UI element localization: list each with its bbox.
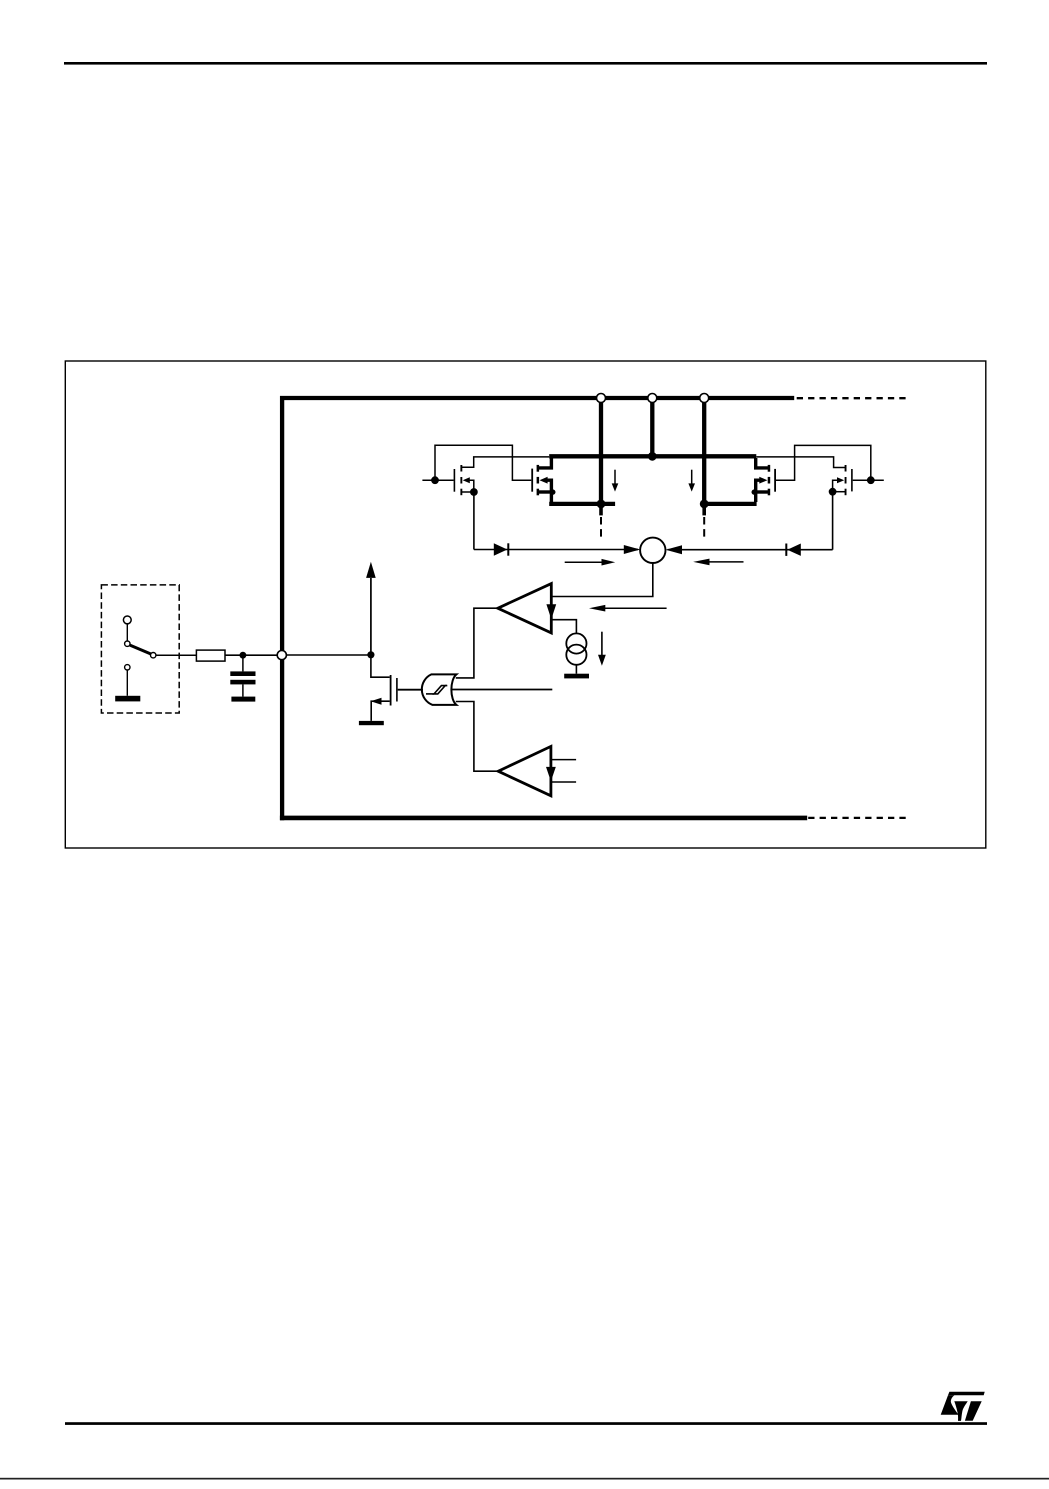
junction capacitor node: [240, 652, 247, 659]
comparator U1: [498, 584, 552, 633]
arrowhead into node from left: [624, 545, 641, 554]
transistor Q3 drain limb: [756, 458, 770, 468]
device boundary (thick left edge + top supply bus): [282, 398, 794, 820]
schmitt OR gate U3: [422, 674, 457, 705]
junction source right: [700, 500, 709, 509]
comparator U2: [498, 746, 551, 795]
wire U1 to current source: [551, 620, 576, 634]
wire switch top: [126, 624, 128, 641]
transistor Q2 body-source limb: [547, 480, 551, 502]
wire drain bus drop 3: [702, 400, 706, 504]
transistor M1 source arrow: [371, 698, 382, 705]
transistor Q2 body arrow: [540, 477, 548, 484]
wire input inside: [286, 654, 371, 656]
transistor Q2 gate bar: [531, 469, 533, 492]
wire U2 input stub upper: [551, 759, 576, 761]
transistor Q1 body tie: [470, 480, 474, 491]
page bottom edge line: [0, 1478, 1049, 1480]
junction gate node left: [431, 476, 439, 484]
wire gate stub left: [422, 479, 453, 481]
transistor Q3 source stub: [756, 490, 769, 493]
transistor M1 drain wire: [371, 653, 390, 677]
transistor Q4 source stub: [833, 491, 845, 493]
ground I1: [564, 674, 589, 679]
pin circle input: [277, 651, 286, 660]
wire U2 input stub lower: [551, 781, 576, 783]
wire switch bottom to ground: [126, 670, 128, 696]
wire mid drain bus: [549, 454, 756, 458]
pin circle drain 3: [700, 394, 709, 403]
transistor Q2 source stub: [538, 490, 551, 493]
dashed source continuation left: [600, 517, 602, 538]
bottom bus dashed continuation: [808, 817, 910, 819]
transistor Q4 gate bar: [851, 469, 853, 491]
pin circle drain 1: [597, 394, 606, 403]
transistor M1 channel bar: [390, 675, 392, 706]
junction mid bus: [648, 452, 657, 461]
wire U1 output to gate input: [456, 608, 498, 678]
wire capacitor bottom: [242, 684, 244, 696]
comparator U1 internal arrow: [546, 598, 556, 620]
wire U2 output to gate input: [456, 702, 498, 772]
capacitor C1: [230, 671, 255, 684]
transistor Q1 body arrow: [463, 477, 470, 483]
wire sense right vertical: [832, 492, 834, 550]
ground M1: [359, 721, 384, 725]
transistor Q1 sense FET left: contact bars: [460, 465, 462, 495]
transistor Q4 sense FET right: contact bars: [845, 465, 847, 495]
wire gate stub right: [853, 479, 884, 481]
junction input node: [367, 651, 374, 658]
junction Q4 source: [829, 488, 837, 496]
wire U3 middle input: [452, 689, 552, 691]
transistor Q4 body arrow: [837, 477, 844, 483]
annotation arrow I1 current: [598, 632, 606, 666]
wire capacitor top: [242, 655, 244, 671]
current arrow right cell: [688, 470, 695, 492]
ground capacitor: [231, 697, 255, 702]
top bus dashed continuation: [797, 397, 910, 399]
comparator U2 internal arrow: [546, 761, 556, 782]
wire drain bus drop 2: [650, 400, 654, 456]
transistor Q1 source stub: [462, 491, 474, 493]
wire drain bus drop 1: [599, 400, 603, 504]
transistor Q3 body-source limb: [756, 480, 760, 502]
resistor R1: [196, 650, 225, 661]
wire source bus left: [549, 502, 615, 506]
header rule: [64, 62, 987, 65]
wire U3 output to M1 gate: [398, 689, 423, 691]
junction Q2 source dot: [550, 489, 555, 494]
dashed source continuation right: [703, 517, 705, 538]
wire switch to resistor: [156, 654, 196, 656]
switch common circle: [151, 653, 156, 658]
diode D1: [494, 543, 510, 555]
figure frame: [65, 361, 986, 848]
transistor Q2 drain limb: [538, 458, 552, 468]
dashed input source box: [101, 585, 179, 713]
transistor Q1 gate bar: [454, 469, 456, 492]
switch contact bottom circle: [125, 665, 130, 670]
wire source stub below node left: [599, 504, 603, 516]
switch pole circle: [125, 641, 130, 646]
annotation arrow current right: [693, 559, 743, 566]
transistor M1 source wire: [371, 701, 390, 721]
summing node: [640, 538, 665, 563]
junction source left: [597, 500, 606, 509]
current source I1: [566, 633, 586, 664]
current arrow left cell: [612, 470, 619, 492]
junction gate node right: [867, 476, 875, 484]
transistor Q4 drain wire to bus: [756, 457, 845, 468]
switch contact top: [123, 616, 131, 624]
wire sense left vertical: [473, 492, 475, 550]
ST logo: [941, 1392, 985, 1421]
U3 hysteresis symbol: [426, 686, 447, 694]
transistor M1 gate bar: [396, 678, 398, 702]
wire gate route left pair: [435, 445, 531, 480]
ground switch: [115, 696, 140, 702]
wire I1 to ground: [575, 665, 577, 674]
wire gate route right pair: [775, 445, 871, 480]
transistor Q4 body tie: [833, 480, 838, 491]
wire node output: [551, 563, 653, 597]
switch lever: [130, 645, 151, 654]
footer rule: [65, 1422, 987, 1425]
transistor Q3 gate bar: [774, 469, 776, 492]
supply arrow up: [366, 562, 376, 655]
diode D2: [785, 544, 801, 556]
transistor Q3 main FET right: contact bars: [768, 465, 771, 495]
transistor Q3 body arrow: [759, 477, 767, 484]
wire input outside: [225, 654, 277, 656]
pin circle drain 2: [648, 394, 657, 403]
wire sense left horizontal: [474, 549, 638, 551]
transistor Q1 drain wire to bus: [462, 457, 549, 467]
wire source bus right: [704, 502, 756, 506]
junction Q1 source: [470, 488, 478, 496]
annotation arrow current left: [565, 559, 616, 566]
wire source stub below node right: [702, 504, 706, 516]
junction Q3 source dot: [752, 489, 757, 494]
annotation arrow feedback: [589, 605, 667, 612]
device boundary bottom bus: [280, 816, 807, 821]
wire sense right horizontal: [668, 549, 833, 551]
transistor Q2 main FET left: contact bars: [537, 465, 540, 495]
arrowhead into node from right: [666, 545, 682, 554]
